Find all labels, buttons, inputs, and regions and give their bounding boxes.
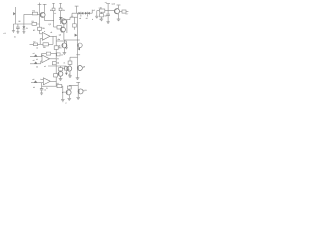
resistor R17	[120, 10, 129, 16]
transistor Q6	[58, 40, 67, 53]
wire Q1 emitter to R3 column	[45, 20, 54, 22]
wire R3 down	[53, 11, 55, 27]
wire U3 feedback	[42, 83, 57, 87]
power tick Q12	[117, 4, 121, 6]
resistor R8 on bus C	[54, 46, 62, 50]
power tick Q1 collector	[43, 3, 47, 5]
svg-text:c3: c3	[61, 54, 63, 57]
resistor R21 on bus C	[57, 53, 60, 56]
wire stub right	[78, 39, 80, 41]
wire branch bottom	[69, 84, 78, 87]
capacitor C5	[106, 11, 110, 22]
wire bus C vertical (signal chain)	[55, 36, 57, 86]
resistor R3	[50, 8, 55, 12]
svg-text:r17: r17	[126, 13, 129, 16]
svg-text:r19: r19	[104, 15, 107, 18]
transistor Q1	[40, 4, 45, 20]
svg-text:R3: R3	[50, 9, 52, 12]
diode D2	[59, 11, 65, 24]
ground	[117, 19, 121, 21]
resistor R15	[67, 86, 71, 89]
wire right corner up	[91, 10, 93, 14]
transistor Q5	[59, 24, 66, 36]
ground	[40, 93, 43, 95]
wire drop to ground left	[12, 24, 14, 31]
wire Q5 down to rail	[63, 32, 65, 40]
wire rail y40	[64, 39, 78, 41]
capacitor C4	[40, 86, 46, 93]
wire left leg	[96, 11, 98, 17]
resistor R10	[59, 68, 63, 71]
wire input rail	[13, 23, 39, 25]
resistor R16	[99, 7, 105, 13]
svg-text:k4: k4	[33, 86, 35, 89]
ground	[61, 100, 65, 102]
wire U1 feedback right leg	[52, 36, 54, 44]
wire to output ground	[62, 86, 63, 99]
svg-text:a2: a2	[33, 59, 35, 62]
wire bus A vertical	[39, 6, 41, 34]
svg-text:k1: k1	[54, 12, 56, 15]
ground	[68, 76, 72, 78]
resistor R11	[65, 66, 70, 71]
resistor R20 hanging	[73, 17, 77, 30]
wire U1 output	[50, 35, 56, 37]
arrow on bus B lower	[77, 48, 80, 51]
wire lower tap	[48, 65, 66, 67]
ground	[100, 19, 103, 21]
junction	[77, 40, 78, 41]
op-amp U1	[40, 30, 54, 40]
svg-text:a1: a1	[33, 52, 35, 55]
op-amp U2	[41, 55, 50, 63]
svg-text:R1: R1	[32, 20, 34, 23]
resistor R1 on input rail	[32, 20, 37, 25]
svg-text:d: d	[69, 73, 70, 76]
svg-text:u2: u2	[44, 65, 46, 68]
wire diode row	[72, 12, 92, 14]
power tick R4	[59, 3, 61, 8]
svg-text:k2: k2	[36, 58, 38, 61]
wire U1 feedback left leg	[39, 39, 41, 45]
transistor Q4	[61, 16, 67, 24]
node IN input arrow	[13, 7, 21, 24]
transistor Q11	[78, 89, 87, 94]
ground	[12, 31, 15, 33]
input network S3	[31, 78, 38, 89]
junction	[53, 20, 54, 21]
input network S2	[30, 59, 41, 68]
svg-text:a3: a3	[32, 78, 34, 81]
power tick mid	[75, 6, 79, 13]
ground	[76, 97, 80, 99]
svg-text:0v: 0v	[14, 36, 16, 39]
arrow on bus B	[75, 34, 78, 37]
wire U2 output	[50, 58, 57, 60]
resistor R18 feedback U2	[46, 52, 50, 55]
junction	[56, 58, 57, 59]
ground	[22, 32, 25, 34]
wire mirror link	[66, 20, 68, 33]
wire	[65, 41, 67, 47]
wire	[60, 66, 62, 68]
transistor Q8	[63, 64, 72, 76]
wire top right rail	[97, 10, 115, 12]
power +V flag top left	[38, 3, 42, 6]
resistor R2	[32, 9, 37, 15]
svg-text:Z1: Z1	[26, 27, 28, 30]
svg-text:R7: R7	[33, 41, 35, 44]
svg-text:ic: ic	[44, 30, 45, 33]
power tick lower mid	[76, 54, 80, 56]
diode D3	[65, 70, 70, 76]
power tick top right	[106, 4, 110, 11]
ground	[65, 47, 68, 49]
svg-text:p: p	[66, 102, 67, 104]
wire U1 feedback bottom	[40, 43, 53, 45]
ground	[59, 79, 63, 81]
transistor Q12	[112, 2, 120, 19]
transistor Q10	[62, 89, 71, 98]
diode D5 pair	[85, 12, 90, 20]
input network S1	[30, 52, 42, 61]
ground	[68, 98, 72, 100]
resistor R7	[30, 41, 41, 50]
transistor Q7	[78, 43, 83, 48]
ground	[63, 53, 67, 55]
ground	[16, 32, 19, 34]
wire R3 column corner	[54, 26, 58, 28]
resistor R5 on bus A	[38, 27, 46, 30]
svg-text:d5: d5	[86, 17, 88, 20]
svg-text:1k: 1k	[36, 47, 38, 50]
svg-text:r9a: r9a	[57, 38, 60, 41]
resistor R13 output	[57, 82, 62, 88]
wire stub left	[71, 13, 73, 16]
capacitor C2	[57, 26, 64, 34]
junction	[56, 36, 57, 37]
svg-text:k3: k3	[36, 65, 38, 68]
transistor Q9 on bus B	[77, 66, 86, 71]
junction	[56, 81, 57, 82]
wire U3 output	[50, 80, 56, 82]
capacitor C1	[16, 24, 20, 32]
resistor R14	[64, 61, 72, 65]
wire bus B vertical	[77, 13, 79, 78]
wire branch left	[70, 57, 78, 61]
resistor R4	[59, 8, 65, 12]
svg-text:d4: d4	[79, 17, 81, 20]
capacitor C3	[52, 62, 56, 65]
power tick R3	[52, 3, 54, 8]
resistor R19 below rail	[100, 12, 107, 19]
transistor Q3	[58, 71, 63, 79]
svg-text:c4: c4	[44, 89, 46, 92]
wire tap to ground	[56, 40, 66, 42]
wire Q4 collector to bus B	[66, 17, 78, 19]
ground	[95, 16, 98, 18]
resistor R12 on bus C	[54, 74, 58, 77]
diode Z1	[23, 24, 29, 32]
ground	[106, 22, 109, 24]
wire U2 feedback top	[41, 54, 56, 57]
op-amp U3	[38, 78, 50, 85]
resistor R6 feedback	[43, 43, 48, 49]
ground bus B bottom	[76, 78, 80, 80]
wire R2 feed	[24, 14, 40, 24]
diode D4 pair	[79, 12, 84, 20]
power tick bottom	[76, 82, 80, 97]
svg-text:R4: R4	[63, 9, 65, 12]
